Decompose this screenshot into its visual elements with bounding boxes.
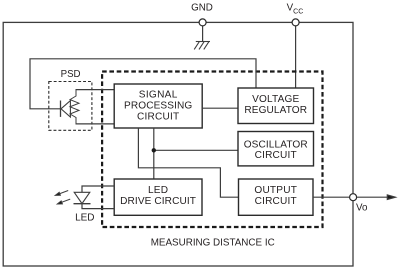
svg-text:OUTPUT: OUTPUT	[254, 185, 297, 196]
svg-text:PROCESSING: PROCESSING	[124, 101, 192, 112]
svg-text:CIRCUIT: CIRCUIT	[137, 111, 179, 122]
wire signal processing to voltage regulator	[202, 107, 238, 109]
box signal processing circuit	[114, 84, 202, 128]
svg-text:GND: GND	[191, 3, 213, 14]
box oscillator circuit	[238, 132, 314, 166]
LED light arrow 2	[57, 199, 70, 204]
photodiode PSD triangle	[61, 101, 70, 117]
svg-text:PSD: PSD	[61, 69, 81, 80]
wire PSD anode loop to voltage regulator	[30, 59, 256, 109]
svg-text:SIGNAL: SIGNAL	[139, 90, 178, 101]
PSD dashed box	[49, 82, 92, 131]
output arrow	[357, 195, 396, 200]
wire GND stub	[202, 25, 204, 42]
svg-text:LED: LED	[75, 213, 94, 224]
box LED drive circuit	[114, 179, 202, 215]
terminal Vo	[350, 194, 357, 201]
ground symbol	[194, 42, 210, 50]
measuring distance IC dashed box	[102, 72, 322, 228]
wire VCC stub to voltage regulator	[295, 25, 297, 88]
terminal GND	[199, 19, 206, 26]
svg-text:CIRCUIT: CIRCUIT	[255, 150, 297, 161]
wire PSD top to signal processing	[76, 89, 115, 91]
svg-text:Vo: Vo	[356, 202, 368, 213]
LED light arrow 1	[55, 191, 68, 196]
junction dot	[152, 148, 156, 152]
box voltage regulator	[238, 88, 314, 124]
wire signal processing to output circuit	[138, 128, 238, 197]
svg-text:DRIVE CIRCUIT: DRIVE CIRCUIT	[120, 196, 196, 207]
wire output circuit to Vo terminal	[313, 196, 350, 198]
LED cathode bar	[74, 203, 91, 205]
LED triangle	[74, 192, 90, 203]
wire LED anode to LED drive circuit	[82, 186, 115, 192]
wire LED cathode to LED drive circuit	[82, 204, 115, 209]
svg-text:VOLTAGE: VOLTAGE	[252, 94, 299, 105]
terminal VCC	[292, 19, 299, 26]
svg-text:LED: LED	[148, 185, 168, 196]
PSD resistive layer zigzag	[70, 90, 79, 124]
svg-text:CIRCUIT: CIRCUIT	[255, 196, 297, 207]
svg-text:REGULATOR: REGULATOR	[244, 105, 307, 116]
outer device boundary rectangle	[3, 22, 353, 266]
svg-text:MEASURING DISTANCE IC: MEASURING DISTANCE IC	[151, 238, 275, 249]
box output circuit	[239, 179, 314, 215]
wire PSD bottom to signal processing	[76, 123, 115, 125]
photodiode PSD bar	[60, 101, 62, 117]
wire signal processing to oscillator with junction	[153, 128, 155, 179]
svg-text:OSCILLATOR: OSCILLATOR	[244, 140, 308, 151]
